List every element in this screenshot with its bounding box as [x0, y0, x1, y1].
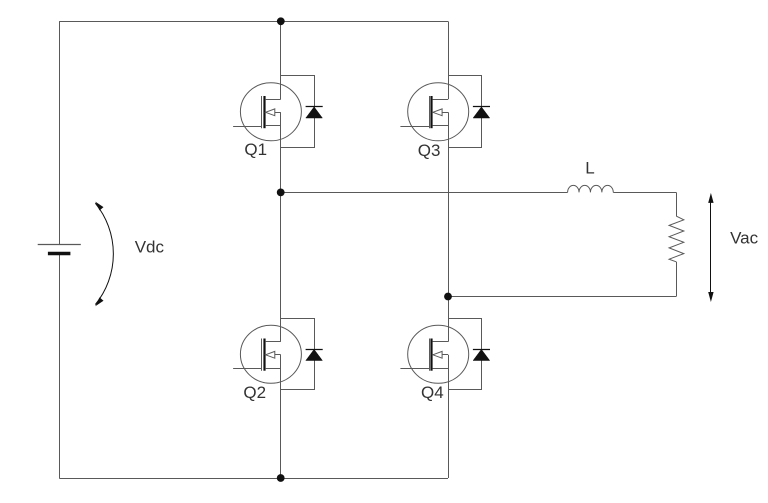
wire: left rail lower (Vdc - terminal) [59, 254, 61, 479]
junction dot top rail / Q1 branch [277, 17, 285, 25]
battery Vdc positive plate (long) [38, 244, 81, 246]
Vdc curved double-headed arrow [95, 202, 113, 307]
wire: branch Q3 drain lead [448, 21, 450, 99]
transistor Q3 (N-MOSFET) [400, 83, 468, 141]
body diode of Q1 [281, 76, 323, 148]
body diode of Q2 [281, 319, 323, 390]
wire: branch Q4 source to bottom rail [448, 355, 450, 478]
wire: branch Q1 drain lead [280, 21, 282, 99]
battery Vdc negative plate (short thick) [48, 252, 71, 256]
body diode of Q3 [448, 76, 490, 148]
wire: node A to inductor [281, 192, 568, 194]
wire: left rail upper (Vdc + terminal) [59, 21, 61, 244]
wire: load bottom to node B [448, 296, 676, 298]
wire: branch Q2 source to bottom rail [280, 355, 282, 478]
svg-text:Q4: Q4 [421, 383, 444, 402]
resistor (load) [669, 216, 684, 262]
svg-text:Q1: Q1 [244, 140, 267, 159]
transistor Q4 (N-MOSFET) [400, 325, 468, 383]
body diode of Q4 [448, 319, 490, 390]
transistor Q2 (N-MOSFET) [233, 325, 301, 383]
transistor Q1 (N-MOSFET) [233, 83, 301, 141]
svg-text:Vac: Vac [730, 229, 759, 248]
inductor L [568, 185, 614, 192]
junction dot bottom rail / Q2 branch [277, 474, 285, 482]
wire: branch Q3 source to Q4 drain (node B leg) [448, 112, 450, 341]
svg-text:Q2: Q2 [243, 383, 266, 402]
wire: inductor to load top [613, 192, 676, 194]
wire: load branch top lead [676, 192, 678, 216]
wire: branch Q1 source to Q2 drain (node A leg) [280, 112, 282, 341]
svg-text:Vdc: Vdc [135, 238, 165, 257]
wire: bottom rail [59, 478, 448, 480]
svg-text:Q3: Q3 [418, 141, 441, 160]
junction dot node A (Q1-Q2 midpoint) [277, 189, 285, 197]
junction dot node B (Q3-Q4 midpoint) [444, 293, 452, 301]
wire: load branch bottom lead [676, 262, 678, 297]
Vac double-headed arrow [708, 193, 713, 302]
svg-text:L: L [585, 159, 594, 178]
wire: top rail [59, 21, 448, 23]
